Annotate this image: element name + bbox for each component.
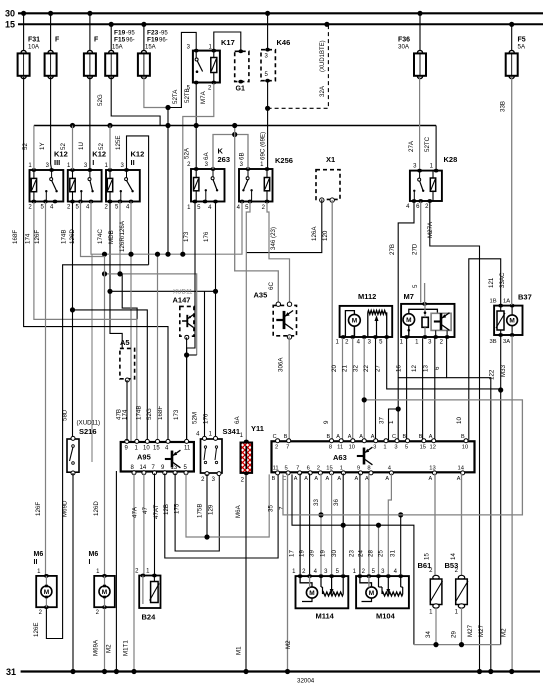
wire 34 B61 to B-rail: [425, 608, 436, 645]
wire M7A from K17 pin2: [183, 83, 214, 254]
svg-text:F5: F5: [518, 37, 526, 44]
svg-text:52: 52: [22, 143, 29, 150]
switch unit S341: [196, 427, 240, 483]
svg-text:12: 12: [429, 444, 435, 450]
glow plug unit M114: [292, 569, 348, 621]
svg-text:19: 19: [299, 550, 306, 557]
svg-text:15A: 15A: [112, 45, 123, 51]
svg-text:33B: 33B: [500, 101, 507, 112]
svg-text:A147: A147: [173, 296, 191, 305]
svg-text:7: 7: [286, 444, 289, 450]
svg-text:27D: 27D: [412, 243, 419, 255]
svg-text:14: 14: [140, 465, 147, 471]
svg-text:15: 15: [420, 444, 426, 450]
wire 6 M7 pin2 to ground bus: [398, 338, 491, 671]
svg-text:K17: K17: [221, 38, 235, 47]
rail MDB to A147 node: [102, 202, 197, 356]
svg-text:10: 10: [462, 444, 468, 450]
wire 129 S341 pin3 to rail: [208, 504, 215, 515]
svg-text:52: 52: [60, 143, 67, 150]
wire 52TB K17 pin5 down to K263 pin2: [184, 83, 197, 169]
svg-text:F19: F19: [147, 37, 159, 44]
wire 47B A5 to A96 pin9: [116, 380, 128, 441]
svg-text:47A: 47A: [132, 506, 139, 518]
unit A35 (dashed): [254, 291, 297, 340]
svg-text:11: 11: [337, 444, 343, 450]
svg-text:K46: K46: [277, 38, 291, 47]
svg-text:(XUD11): (XUD11): [77, 420, 101, 427]
svg-text:C: C: [392, 434, 396, 440]
rail 126R/126A - K12II pin4 down past A5: [119, 202, 131, 442]
wire K17 pin1 to G1 top: [214, 32, 241, 50]
svg-text:126D: 126D: [93, 501, 100, 516]
svg-text:13: 13: [429, 465, 435, 471]
svg-text:A: A: [359, 434, 363, 440]
wire 52 to K12III pin1: [22, 126, 34, 170]
wire M69A M6I pin2 to ground bus: [93, 608, 105, 671]
fuse F5 5A: [506, 24, 526, 78]
svg-text:B: B: [327, 434, 331, 440]
svg-text:14: 14: [450, 553, 457, 560]
svg-text:28: 28: [368, 550, 375, 557]
svg-text:F31: F31: [28, 37, 40, 44]
wire 17 A63 to M114 pin1: [289, 473, 301, 574]
svg-text:10A: 10A: [28, 44, 40, 51]
svg-text:A: A: [304, 476, 308, 482]
svg-text:6: 6: [307, 465, 310, 471]
wire 126E loop K12II to M6II pin2: [33, 265, 149, 639]
svg-text:M: M: [44, 589, 49, 596]
svg-text:A: A: [457, 476, 461, 482]
svg-text:8: 8: [329, 444, 332, 450]
wire A96 pin5 rail to A63 (175B): [186, 473, 269, 539]
svg-text:10: 10: [456, 417, 463, 424]
wire 174 K12III pin2 to A96 pin1: [25, 202, 137, 440]
ECU A63: [272, 434, 475, 482]
wire bus30 to K46: [267, 13, 269, 48]
svg-text:35: 35: [268, 505, 275, 512]
injector solenoid Y11: [240, 424, 264, 484]
svg-text:1: 1: [340, 465, 343, 471]
svg-text:52: 52: [98, 143, 105, 150]
wire fuse F23 to 52TA node: [144, 77, 171, 110]
svg-text:15: 15: [5, 19, 15, 29]
svg-text:1Y: 1Y: [39, 142, 46, 150]
wire 24 A63 to M104 pin2: [358, 473, 369, 574]
svg-text:M2: M2: [285, 640, 292, 649]
svg-text:32: 32: [353, 365, 360, 372]
svg-text:3B: 3B: [490, 339, 497, 345]
junction dots on bus 30: [21, 11, 423, 16]
fuse F (2nd): [45, 13, 60, 78]
svg-text:11: 11: [184, 446, 191, 452]
wire 126A from X1: [246, 199, 321, 252]
compressor unit M7: [400, 283, 455, 346]
svg-text:F: F: [55, 37, 60, 44]
svg-text:5A: 5A: [518, 44, 526, 51]
svg-text:47: 47: [142, 507, 149, 514]
fuse F31 10A: [18, 13, 41, 78]
wire 168F F31 to A96 pin4: [12, 77, 168, 440]
svg-text:A: A: [348, 434, 352, 440]
staircase MDB to rail 174: [122, 274, 137, 320]
svg-text:C: C: [273, 434, 277, 440]
gray loop rail around A63 right: [283, 397, 522, 515]
svg-text:174C: 174C: [97, 229, 104, 244]
wire 27 M112 pin5 to node 122: [375, 338, 501, 389]
wire 23 A63 to M104 pin1: [349, 473, 360, 574]
svg-text:K256: K256: [275, 156, 293, 165]
svg-text:27: 27: [375, 365, 382, 372]
fuse F23 -95 / F19 96- 15A: [138, 24, 168, 78]
svg-text:126A: 126A: [311, 226, 318, 241]
svg-text:A: A: [355, 476, 359, 482]
svg-text:8: 8: [367, 465, 370, 471]
wire 174C K12II pin2 down to A5: [97, 202, 122, 349]
svg-text:A63: A63: [333, 453, 347, 462]
svg-text:52M: 52M: [192, 412, 199, 424]
wire K46 pin5 down to K256 pin1 (69C): [260, 82, 271, 169]
svg-text:12: 12: [411, 365, 418, 372]
svg-text:B: B: [461, 434, 465, 440]
svg-text:126F: 126F: [34, 230, 41, 244]
wire 306A A35 to A63 pin7: [278, 337, 290, 440]
svg-text:3A: 3A: [503, 339, 510, 345]
svg-text:52TC: 52TC: [424, 136, 431, 152]
svg-text:126R/126A: 126R/126A: [119, 220, 126, 252]
wire 6A K256 pin5 to Y11 pin1: [234, 202, 250, 442]
svg-text:173: 173: [173, 409, 180, 420]
svg-text:M1T1: M1T1: [123, 640, 130, 656]
wire 29 B53 to B-rail: [451, 608, 462, 645]
wire 1U fuse to K12I pin3: [78, 77, 90, 169]
junction dots on bus 31: [70, 669, 514, 674]
svg-text:A35: A35: [254, 291, 268, 300]
svg-text:120: 120: [322, 230, 329, 241]
svg-text:96-: 96-: [126, 38, 135, 44]
svg-text:176: 176: [203, 413, 210, 424]
svg-text:-95: -95: [159, 31, 168, 37]
rail 52M to S341 pin4: [110, 289, 218, 437]
sensor B53: [445, 561, 469, 616]
wire 175 A96 pin13 to S341 pin3 rail: [174, 473, 220, 551]
svg-text:36: 36: [333, 499, 340, 506]
svg-text:M: M: [406, 317, 411, 324]
svg-text:173: 173: [183, 231, 190, 242]
svg-text:6A: 6A: [234, 416, 241, 424]
svg-text:31: 31: [390, 550, 397, 557]
svg-text:F: F: [94, 37, 99, 44]
wire M33/M2 B37 3A to ground bus: [500, 336, 512, 672]
svg-text:F19: F19: [114, 30, 126, 37]
sensor ground B-rail: [414, 642, 501, 647]
svg-text:306A: 306A: [278, 357, 285, 372]
svg-text:15: 15: [424, 553, 431, 560]
svg-text:M7: M7: [404, 292, 414, 301]
fuse F36 30A: [398, 13, 426, 78]
wire M2 A63 pin5 to ground bus: [285, 473, 292, 671]
wire 52 to K12I pin1: [60, 126, 73, 170]
svg-text:52TB: 52TB: [184, 88, 191, 103]
wire fuse F19/F15 down-right: [97, 77, 160, 126]
sensor unit B37: [490, 293, 532, 346]
svg-text:126E: 126E: [33, 623, 40, 637]
svg-text:27A: 27A: [408, 140, 415, 152]
svg-text:15: 15: [326, 465, 332, 471]
svg-text:B: B: [403, 434, 407, 440]
svg-text:M1: M1: [236, 646, 243, 655]
svg-text:M2: M2: [501, 628, 508, 637]
svg-text:5: 5: [284, 465, 287, 471]
wire 1Y fuse to K12III pin3: [39, 77, 52, 169]
svg-text:52G: 52G: [97, 94, 104, 106]
wire 47 A96 pin14 to B24 pin2: [142, 473, 149, 574]
stub wire right of K12I: [91, 254, 93, 462]
svg-text:F36: F36: [398, 37, 410, 44]
svg-text:9: 9: [357, 465, 360, 471]
node on 27B to A63 pins: [379, 406, 401, 440]
black rail to B-rail below A63: [292, 474, 414, 644]
svg-text:346 (23): 346 (23): [270, 227, 277, 250]
relay K46 (dashed): [261, 38, 290, 83]
svg-text:M6A: M6A: [235, 504, 242, 518]
svg-text:15: 15: [153, 446, 160, 452]
ground bus 31: [6, 667, 540, 685]
svg-text:32A: 32A: [319, 85, 326, 97]
wire M6A/M1 Y11 pin2 to ground bus: [235, 474, 246, 672]
unit A147 (XUD11, dashed): [173, 289, 194, 340]
svg-text:A5: A5: [120, 338, 130, 347]
svg-text:X1: X1: [326, 155, 335, 164]
glow plug unit M104: [353, 569, 409, 621]
svg-text:III: III: [54, 158, 60, 167]
wire 27B K28 pin4 to A63: [389, 202, 414, 440]
relay K12 III: [28, 150, 67, 211]
relay K28: [406, 155, 457, 210]
svg-text:M2: M2: [106, 644, 113, 653]
switch S216 (XUD11): [67, 420, 100, 476]
rail 6A/6B feeding K263.3 K256.3: [203, 123, 248, 169]
unit G1 (dashed): [235, 49, 249, 92]
wire 52 to K12II pin1: [98, 126, 110, 170]
wire M69D S216 to ground bus: [62, 473, 74, 672]
svg-text:263: 263: [218, 155, 231, 164]
svg-text:M6: M6: [34, 551, 44, 558]
svg-text:5: 5: [412, 284, 419, 288]
svg-text:I: I: [89, 559, 91, 566]
svg-text:(XUD1BTE): (XUD1BTE): [320, 40, 326, 72]
wire 175B S341 pin2 to rail: [197, 474, 208, 537]
svg-text:MDB: MDB: [108, 230, 115, 244]
wire 125E from K12II pin3: [115, 136, 149, 265]
supply rail y254 from K12I pin4 to K256 pin4: [91, 202, 242, 257]
wire 15 A63 pin13 to B61: [424, 473, 436, 576]
svg-text:II: II: [131, 158, 135, 167]
svg-text:126F: 126F: [35, 502, 42, 516]
svg-text:33AC: 33AC: [499, 272, 506, 288]
svg-text:7: 7: [279, 506, 286, 510]
svg-text:176: 176: [203, 231, 210, 242]
power bus 15: [18, 23, 543, 25]
wire 176 K263 pin4 to S341 pin1: [203, 202, 216, 436]
svg-text:17: 17: [289, 550, 296, 557]
wire 14 A63 pin14 to B53: [450, 473, 462, 576]
svg-text:175: 175: [174, 503, 181, 514]
svg-text:A: A: [294, 476, 298, 482]
svg-text:6C: 6C: [268, 282, 275, 290]
wire 30 A63 to M114 pin5: [331, 473, 346, 574]
svg-text:A95: A95: [137, 453, 151, 462]
svg-text:A: A: [314, 476, 318, 482]
svg-text:96-: 96-: [159, 38, 168, 44]
svg-text:6B: 6B: [239, 152, 246, 160]
svg-text:13: 13: [171, 465, 178, 471]
relay supply rail y125: [34, 123, 436, 128]
wire 47AT A96 pin7 to B24 pin1: [153, 473, 160, 574]
sensor B61: [418, 561, 443, 616]
relay K12 II: [105, 150, 145, 211]
wire 28 to M104 pin5: [368, 523, 382, 575]
svg-text:39: 39: [309, 550, 316, 557]
wire 126F K12III pin5 to M6 II pin1: [34, 202, 46, 574]
svg-text:M114: M114: [316, 612, 335, 621]
svg-text:23: 23: [349, 550, 356, 557]
svg-text:B37: B37: [518, 293, 532, 302]
svg-text:25: 25: [378, 550, 385, 557]
wire 120 X1 to A63 pin8: [322, 200, 332, 440]
wire 52TA from K17 pin3: [168, 32, 196, 107]
connector X1 (dashed): [316, 155, 340, 202]
svg-text:A: A: [326, 476, 330, 482]
svg-text:47AT: 47AT: [153, 504, 160, 519]
relay K263: [187, 147, 230, 212]
wires M112 pins to A63 (20 21 32 22): [331, 338, 376, 440]
svg-text:M33: M33: [500, 364, 507, 377]
svg-text:27B: 27B: [389, 244, 396, 255]
fuse F (3rd): [84, 13, 99, 78]
svg-text:37: 37: [379, 417, 386, 424]
svg-text:32004: 32004: [297, 678, 315, 685]
svg-text:M: M: [369, 590, 374, 597]
wire 346 (23) K256 pin2 to A35: [267, 202, 290, 303]
svg-text:A: A: [429, 434, 433, 440]
svg-text:G1: G1: [236, 86, 245, 93]
svg-text:M112: M112: [358, 292, 376, 301]
unit A5 (dashed): [120, 338, 135, 382]
svg-text:20: 20: [331, 365, 338, 372]
power bus 30: [18, 12, 543, 14]
svg-text:K28: K28: [444, 155, 458, 164]
svg-text:31: 31: [6, 667, 16, 677]
wire 31 to M104 pin4: [390, 512, 404, 574]
wire 6C node down to A35: [235, 135, 279, 304]
svg-text:14: 14: [457, 465, 464, 471]
svg-text:16: 16: [396, 365, 403, 372]
svg-text:1: 1: [388, 420, 395, 424]
svg-text:52G: 52G: [146, 408, 153, 420]
svg-text:S341: S341: [223, 427, 241, 436]
svg-text:A: A: [429, 476, 433, 482]
wire 52G to A96 pin15: [146, 252, 160, 440]
svg-text:30A: 30A: [398, 44, 410, 51]
svg-text:52TA: 52TA: [172, 89, 179, 104]
svg-text:M: M: [102, 589, 107, 596]
wire 122 B37 3B to B-rail: [489, 336, 504, 645]
svg-text:-95: -95: [126, 31, 135, 37]
svg-text:29: 29: [451, 631, 458, 638]
svg-text:A: A: [371, 434, 375, 440]
svg-text:1U: 1U: [78, 142, 85, 150]
svg-text:30: 30: [331, 550, 338, 557]
svg-text:B: B: [419, 434, 423, 440]
svg-text:M6: M6: [89, 551, 99, 558]
svg-text:A: A: [336, 434, 340, 440]
svg-text:A: A: [385, 476, 389, 482]
fuse F19 -95 / F15 96- 15A: [105, 24, 135, 78]
svg-text:II: II: [34, 559, 38, 566]
svg-text:M27A: M27A: [427, 221, 434, 238]
sensor B24: [135, 569, 160, 622]
svg-text:122: 122: [489, 369, 496, 380]
svg-text:XUD11: XUD11: [173, 289, 193, 296]
motor M6 I: [89, 551, 115, 616]
junction dots on bus 15: [109, 22, 515, 27]
wire 10 B37 1B to A63 pin10: [456, 259, 501, 440]
svg-text:13: 13: [423, 365, 430, 372]
svg-text:174: 174: [25, 233, 32, 244]
wire 174B K12I pin2 to S216 and A96 pin10: [61, 202, 148, 440]
svg-text:11: 11: [273, 465, 279, 471]
svg-text:24: 24: [358, 550, 365, 557]
svg-text:M7A: M7A: [200, 90, 207, 104]
svg-text:M69A: M69A: [93, 639, 100, 656]
wire 47A A96 pin8 to ground bus (M1T1): [123, 473, 139, 671]
wire A147 emitter node: [184, 337, 197, 440]
svg-text:M27: M27: [478, 624, 485, 637]
svg-text:F15: F15: [114, 37, 126, 44]
svg-text:M: M: [509, 318, 514, 325]
svg-text:10: 10: [349, 444, 355, 450]
svg-text:10: 10: [143, 446, 150, 452]
relay K256: [237, 156, 293, 211]
wire 27D K28 pin6 to M7 pin4: [412, 202, 421, 303]
wire 39 A63 to M114 pin4: [309, 473, 324, 574]
wire 52TC to K28 pin1: [424, 126, 436, 170]
relay K12 I: [67, 150, 106, 211]
wire M2 to ground bus: [106, 471, 117, 672]
svg-text:47B: 47B: [116, 409, 123, 420]
svg-text:Y11: Y11: [251, 424, 264, 433]
svg-text:5: 5: [405, 444, 408, 450]
wire 19 A63 to M114 pin2: [299, 473, 310, 574]
svg-text:M69D: M69D: [62, 500, 69, 517]
svg-text:30: 30: [5, 8, 15, 18]
wire 19 A63 to M114 pin3: [313, 473, 332, 574]
svg-text:121: 121: [488, 277, 495, 288]
svg-text:A: A: [337, 476, 341, 482]
svg-text:34: 34: [425, 631, 432, 638]
svg-text:168F: 168F: [12, 230, 19, 244]
wire 173 K263 pin1 to A96 pin11: [173, 202, 195, 440]
ECU A95: [121, 439, 194, 474]
svg-text:125E: 125E: [115, 136, 122, 150]
svg-text:I: I: [92, 158, 94, 167]
svg-text:33: 33: [313, 499, 320, 506]
svg-text:S216: S216: [79, 427, 97, 436]
svg-text:69C (69E): 69C (69E): [260, 132, 267, 160]
svg-text:B: B: [272, 476, 276, 482]
svg-text:6: 6: [434, 366, 441, 370]
